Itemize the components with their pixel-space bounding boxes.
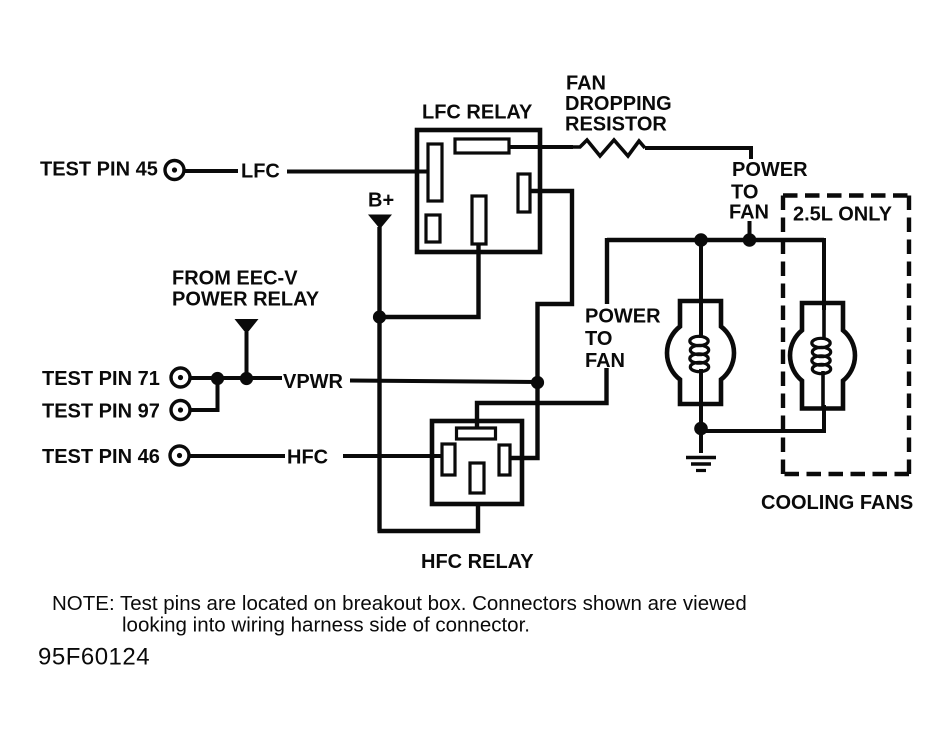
wire HFC: test pin 46 to HFC label [188, 454, 285, 458]
svg-text:POWER RELAY: POWER RELAY [172, 289, 320, 311]
test pin 45 connector circle [165, 161, 184, 180]
svg-text:TO: TO [731, 182, 758, 204]
dashed box 2.5L only [783, 196, 909, 475]
wire left fan motor feed [699, 238, 703, 338]
test pin 46 connector circle [170, 446, 189, 465]
LFC relay pin center (30) [472, 196, 486, 244]
LFC relay pin lower-left (86) [426, 215, 440, 242]
wire B+ vertical line [377, 227, 381, 531]
wire test pin 97 branch [190, 378, 218, 410]
svg-text:2.5L ONLY: 2.5L ONLY [793, 204, 893, 226]
relay U1 LFC relay box [417, 130, 540, 252]
test pin 97 connector circle [171, 401, 190, 420]
svg-text:LFC RELAY: LFC RELAY [422, 102, 533, 124]
arrow B+ supply [368, 215, 392, 230]
svg-text:95F60124: 95F60124 [38, 644, 150, 671]
wire LFC relay center pin down and left to B+ junction [379, 244, 479, 317]
wire from EEC-V arrow down to VPWR junction [245, 332, 249, 379]
svg-text:FROM EEC-V: FROM EEC-V [172, 268, 298, 290]
wire bus left end down to left POWER TO FAN label [605, 238, 609, 304]
svg-text:looking into wiring harness si: looking into wiring harness side of conn… [122, 614, 530, 637]
wire inside right motor [822, 310, 826, 340]
svg-text:TEST PIN 46: TEST PIN 46 [42, 446, 160, 468]
wire LFC: test pin 45 to LFC label [185, 169, 238, 173]
fan motor M1 coil winding [690, 336, 709, 371]
svg-text:TEST PIN 45: TEST PIN 45 [40, 159, 158, 181]
svg-text:RESISTOR: RESISTOR [565, 114, 667, 136]
wire fan bus right end down into right fan motor [822, 238, 826, 310]
junction dot EEC-V feed [240, 372, 253, 385]
wire resistor to power-to-fan stub [645, 148, 751, 159]
svg-text:COOLING FANS: COOLING FANS [761, 492, 913, 514]
fan motor M2 coil winding [812, 338, 831, 373]
wire test pin 71 to VPWR label [189, 376, 282, 380]
wire fan supply bus horizontal [607, 238, 824, 242]
resistor R1 fan dropping resistor zigzag [573, 140, 645, 156]
LFC relay pin top (87) [455, 139, 509, 153]
LFC relay pin left (85) [428, 144, 442, 201]
junction dot fan bus resistor feed [743, 233, 757, 247]
junction dot B+ / LFC relay center pin [373, 310, 386, 323]
svg-text:DROPPING: DROPPING [565, 93, 672, 115]
svg-text:FAN: FAN [585, 350, 625, 372]
fan motor M2 right outline [790, 303, 855, 409]
svg-text:POWER: POWER [585, 306, 661, 328]
ground symbol [686, 456, 716, 460]
junction dot TP71 branch [211, 372, 224, 385]
wire VPWR horizontal [350, 381, 538, 383]
junction dot fan bus left fan [694, 233, 708, 247]
relay U2 HFC relay box [432, 421, 522, 504]
fan motor M1 left outline [667, 301, 734, 404]
wire below left POWER TO FAN label to HFC relay top pin [477, 368, 607, 429]
svg-text:TEST PIN 97: TEST PIN 97 [42, 401, 160, 423]
svg-text:LFC: LFC [241, 161, 280, 183]
wire right fan motor bottom to ground bus [701, 405, 824, 431]
svg-text:FAN: FAN [566, 73, 606, 95]
svg-text:VPWR: VPWR [283, 371, 344, 393]
svg-text:FAN: FAN [729, 202, 769, 224]
wire stub below right POWER TO FAN label [748, 221, 752, 240]
svg-text:NOTE: Test pins are located on: NOTE: Test pins are located on breakout … [52, 592, 747, 615]
wire left fan motor bottom to ground [699, 369, 703, 453]
HFC relay pin top [457, 428, 496, 439]
HFC relay pin left [442, 444, 455, 475]
HFC relay pin center [470, 463, 484, 493]
svg-text:POWER: POWER [732, 159, 808, 181]
svg-text:B+: B+ [368, 190, 394, 212]
wire LFC relay top pin to resistor [509, 145, 573, 149]
arrow from EEC-V power relay [235, 319, 259, 334]
wire LFC relay right pin to HFC relay right pin [510, 191, 572, 458]
svg-text:HFC RELAY: HFC RELAY [421, 551, 534, 573]
test pin 71 connector circle [171, 368, 190, 387]
svg-text:TO: TO [585, 328, 612, 350]
wire LFC label to LFC relay left pin [287, 170, 430, 174]
wire B+ bottom to HFC relay center pin [378, 503, 479, 531]
svg-text:TEST PIN 71: TEST PIN 71 [42, 368, 160, 390]
junction dot VPWR / relay wire [531, 376, 544, 389]
HFC relay pin right [499, 445, 510, 475]
LFC relay pin right (87a) [518, 174, 530, 212]
wire HFC label to HFC relay left pin [343, 454, 443, 458]
svg-text:HFC: HFC [287, 447, 328, 469]
junction dot ground node [694, 422, 708, 436]
